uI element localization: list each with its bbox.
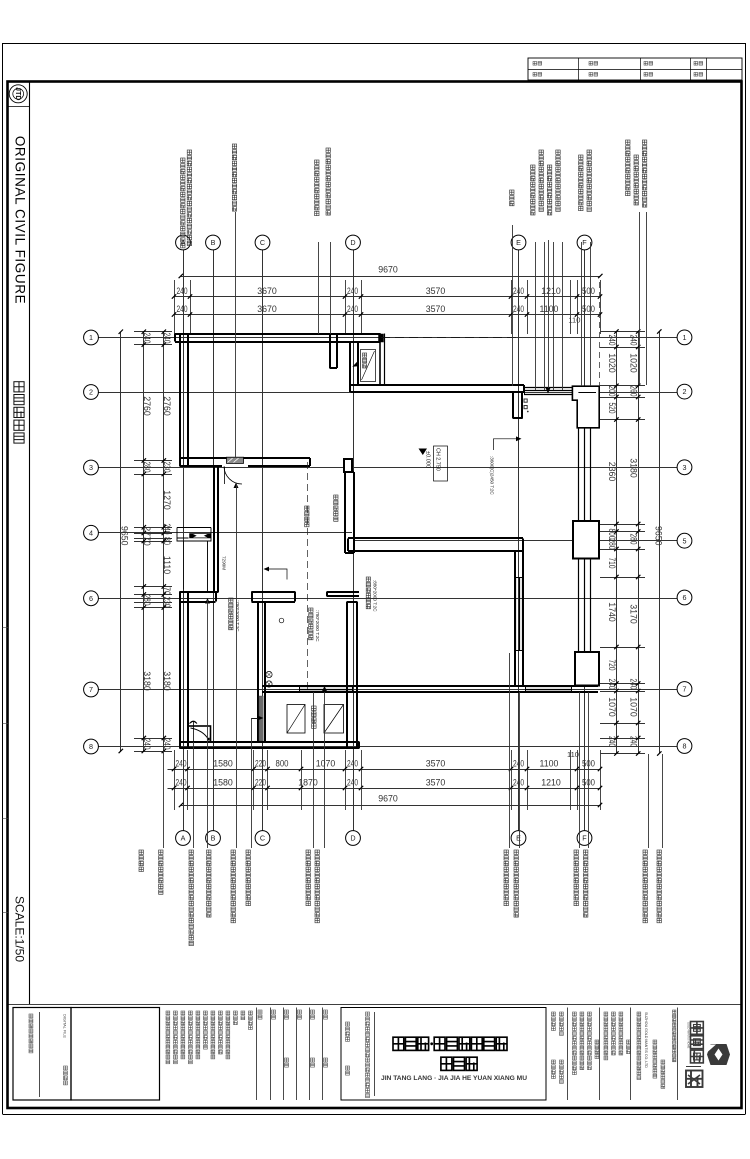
svg-text:JIN TANG LANG · JIA JIA HE YUA: JIN TANG LANG · JIA JIA HE YUAN XIANG MU — [381, 1075, 527, 1082]
svg-text:3570: 3570 — [426, 759, 446, 769]
equipment platform left — [287, 705, 305, 734]
axis4 west window black band — [190, 534, 212, 539]
wall south band with windows — [262, 685, 598, 687]
svg-text:240: 240 — [347, 304, 358, 314]
equipment platform label — [312, 706, 317, 711]
svg-text:9650: 9650 — [654, 526, 664, 546]
info column small — [673, 1010, 676, 1013]
left outer dim line — [143, 332, 145, 753]
svg-text:3570: 3570 — [426, 778, 446, 788]
annotation b6 — [246, 850, 250, 854]
wall chunk east mid — [573, 521, 599, 559]
wall stub east of bedroom1 — [329, 334, 331, 369]
annotation F1 — [579, 155, 583, 159]
gold mantis logo — [691, 1022, 704, 1035]
annotation b14 — [657, 850, 661, 854]
wall south of living room — [348, 537, 523, 539]
top dimension row 9670 — [181, 276, 601, 278]
dashed building edge line F — [599, 282, 601, 386]
svg-text:3170: 3170 — [629, 604, 639, 624]
balcony laundry label box — [361, 350, 376, 382]
grid circle E bottom — [511, 831, 526, 846]
svg-text:280: 280 — [629, 534, 639, 545]
grid circle D bottom — [346, 831, 361, 846]
annotation b11 — [574, 850, 578, 854]
signature label 2 — [285, 1058, 289, 1062]
signature table lines — [256, 1008, 258, 1101]
svg-text:3670: 3670 — [257, 304, 277, 314]
note column — [211, 1011, 215, 1015]
grid circle 1 right — [677, 330, 692, 345]
bottom dim extension ticks — [174, 750, 176, 810]
grid circle D top — [346, 235, 361, 250]
info column — [552, 1060, 556, 1064]
wall chunk east bottom corner — [575, 652, 599, 686]
svg-text:6: 6 — [89, 594, 93, 603]
svg-text:240: 240 — [347, 286, 358, 296]
entry direction arrow — [494, 439, 517, 450]
info column — [619, 1012, 623, 1016]
outer thin border bottom — [3, 1114, 746, 1116]
svg-text:1: 1 — [683, 333, 687, 342]
note column — [166, 1011, 170, 1015]
svg-text::780*2000 T:2C: :780*2000 T:2C — [235, 600, 240, 632]
svg-text:C: C — [260, 238, 265, 247]
svg-text:1100: 1100 — [540, 304, 559, 314]
svg-text:1: 1 — [89, 333, 93, 342]
wall vertical between bottom rooms — [514, 551, 516, 686]
svg-text:240: 240 — [347, 759, 358, 769]
grid circle 3 left — [84, 460, 99, 475]
wall vertical center (living west) — [344, 472, 346, 553]
svg-text:500: 500 — [582, 286, 595, 296]
svg-text:8: 8 — [683, 742, 687, 751]
wall balcony east lines — [379, 334, 381, 386]
svg-text:3180: 3180 — [629, 458, 639, 478]
grid circle E top — [511, 235, 526, 250]
svg-text:1580: 1580 — [213, 759, 233, 769]
right outer dim line — [638, 332, 640, 754]
svg-text:240: 240 — [607, 335, 617, 346]
signature label — [285, 1010, 289, 1014]
door swing arc at bedroom1 south door — [224, 467, 242, 485]
bottom leader arrowheads — [205, 598, 210, 604]
annotation F2 — [587, 150, 591, 154]
annotation B — [232, 144, 236, 148]
window east wall upper — [578, 428, 580, 521]
svg-text:240: 240 — [629, 736, 639, 747]
annotation E4 — [556, 150, 560, 154]
annotation C1 — [315, 160, 319, 164]
annotation E1 — [531, 165, 535, 169]
svg-text::880*2000 T:2C: :880*2000 T:2C — [373, 580, 378, 612]
svg-text:D: D — [350, 238, 355, 247]
top dim extension ticks — [174, 280, 176, 334]
dashed boundary line east of top wall — [381, 337, 519, 339]
grid circle 8 right — [677, 739, 692, 754]
left dim 9650 line — [120, 332, 122, 753]
signature label 2 — [324, 1058, 328, 1062]
note column — [226, 1011, 230, 1015]
wall west of bedroom1 (outer west wall) — [179, 334, 181, 467]
svg-text:B: B — [211, 238, 216, 247]
svg-text:1020: 1020 — [607, 353, 617, 373]
wall vertical bath east — [346, 602, 348, 749]
note column — [174, 1011, 178, 1015]
info column — [612, 1012, 616, 1016]
window leader down arrow — [548, 240, 550, 389]
info column — [661, 1060, 665, 1064]
project title box — [341, 1008, 546, 1101]
gas note — [305, 506, 309, 510]
wall top of bedroom1 (outer north wall) — [175, 333, 381, 335]
annotation G2 — [634, 155, 638, 159]
annotation b8 — [315, 850, 319, 854]
grid circle 6 right — [677, 590, 692, 605]
svg-text:E: E — [516, 834, 521, 843]
window east wall lower — [578, 559, 580, 653]
svg-text:240: 240 — [176, 778, 187, 788]
svg-text:3: 3 — [89, 463, 93, 472]
svg-text:240: 240 — [162, 739, 172, 750]
title line 1 — [393, 1037, 404, 1050]
grid axis 4 horizontal line — [99, 532, 353, 534]
grid circle 7 right — [677, 682, 692, 697]
annotation b1 — [139, 850, 143, 854]
door note D1 col1 — [229, 598, 233, 602]
title line 2 — [441, 1057, 452, 1070]
grid circle F top — [577, 235, 592, 250]
grid circle 1 left — [84, 330, 99, 345]
info column — [653, 1040, 657, 1044]
svg-text:9670: 9670 — [378, 265, 398, 275]
corner wall column northeast (L-shape) — [572, 386, 599, 428]
svg-text::3600(C)2450 T:2C: :3600(C)2450 T:2C — [490, 456, 495, 495]
title block top line — [8, 1004, 743, 1006]
note column — [234, 1011, 238, 1015]
note column — [204, 1011, 208, 1015]
grid axis D vertical line — [353, 250, 355, 831]
svg-text:4: 4 — [89, 528, 93, 537]
info column — [560, 1060, 564, 1064]
svg-text:E: E — [516, 238, 521, 247]
outer thin border top — [3, 43, 746, 45]
info column — [552, 1012, 556, 1016]
grid axis A vertical line — [183, 250, 185, 831]
annotation C2 — [326, 148, 330, 152]
info column — [560, 1012, 564, 1016]
right inner dim line — [616, 332, 618, 754]
right info columns — [567, 1008, 569, 1101]
sidebar logo circle — [9, 85, 27, 103]
sidebar fold ticks — [3, 627, 9, 629]
grid circle 7 left — [84, 682, 99, 697]
svg-text:240: 240 — [629, 335, 639, 346]
svg-text:3180: 3180 — [142, 671, 152, 691]
annotation b7 — [306, 850, 310, 854]
svg-text:6: 6 — [683, 593, 687, 602]
grid circle C top — [255, 235, 270, 250]
svg-text:1210: 1210 — [541, 778, 561, 788]
svg-text:240: 240 — [513, 759, 524, 769]
grid circle A top — [176, 235, 191, 250]
window bottom middle — [299, 686, 352, 688]
signature label — [272, 1010, 276, 1014]
svg-text:9670: 9670 — [378, 794, 398, 804]
svg-text:280: 280 — [142, 595, 152, 606]
window sill up arrow — [322, 686, 328, 692]
project name label — [346, 1022, 350, 1026]
svg-text:1070: 1070 — [316, 759, 336, 769]
entry door box bottom-left — [188, 726, 211, 742]
svg-text:2: 2 — [89, 388, 93, 397]
sidebar chinese title — [14, 382, 24, 392]
svg-text:500: 500 — [582, 304, 595, 314]
bottom leader lines — [163, 751, 165, 848]
dashed centerline bathroom — [307, 462, 309, 692]
grid axis 1 horizontal line — [99, 337, 678, 339]
grid circle B bottom — [206, 831, 221, 846]
svg-text:B: B — [211, 834, 216, 843]
info column — [637, 1012, 641, 1016]
signature label — [311, 1010, 315, 1014]
grid axis 6 horizontal line — [99, 598, 678, 600]
svg-text:SCALE:1/50: SCALE:1/50 — [13, 896, 27, 962]
svg-text:240: 240 — [177, 286, 188, 296]
svg-text:710: 710 — [607, 558, 617, 569]
annotation b12 — [584, 850, 588, 854]
grid axis C vertical line — [262, 250, 264, 831]
grid circle 2 right — [677, 384, 692, 399]
info column — [580, 1012, 584, 1016]
svg-text:7: 7 — [683, 685, 687, 694]
annotation E2 — [539, 150, 543, 154]
grid axis F vertical line — [584, 250, 586, 831]
svg-text:720: 720 — [607, 660, 617, 671]
grid circle 2 left — [84, 385, 99, 400]
leader elbow arrow into hatched wall — [251, 718, 258, 720]
svg-text:2760: 2760 — [162, 396, 172, 416]
grid circle 8 left — [84, 739, 99, 754]
wall partition balcony west — [349, 342, 351, 386]
drawing name label — [346, 1066, 350, 1070]
shaft wall lines below axis4 window — [183, 541, 185, 590]
info column — [573, 1012, 577, 1016]
annotation A1 — [181, 158, 185, 162]
grid circle A bottom — [176, 831, 191, 846]
annotation b5 — [231, 850, 235, 854]
svg-text:9650: 9650 — [119, 526, 129, 546]
table labels — [533, 62, 537, 66]
svg-text:8: 8 — [89, 742, 93, 751]
wall segments row y=591-601 with door openings — [180, 591, 216, 593]
leader arrow left — [269, 569, 287, 580]
annotation D — [510, 190, 514, 194]
svg-text:A: A — [181, 834, 186, 843]
svg-text:240: 240 — [142, 333, 152, 344]
annotation A2 — [187, 150, 191, 154]
svg-text:2760: 2760 — [142, 396, 152, 416]
note column — [249, 1011, 253, 1015]
grid axis B vertical line — [213, 250, 215, 831]
svg-text:D: D — [350, 834, 355, 843]
floor drain symbols — [266, 671, 272, 677]
right dim extension ticks — [600, 331, 645, 333]
wall outer west lower — [179, 592, 181, 749]
sidebar logo cell line — [8, 106, 30, 108]
grid circle C bottom — [255, 831, 270, 846]
wall stub south of entry wall — [512, 392, 514, 419]
logo divider bar — [686, 1066, 701, 1068]
svg-text:2770: 2770 — [142, 526, 152, 546]
svg-text:1070: 1070 — [607, 697, 617, 717]
door note D2 col1 — [309, 608, 313, 612]
right dim 9650 line — [659, 332, 661, 754]
empty box — [71, 1008, 160, 1101]
svg-text:GOLD MANTIS HOME: GOLD MANTIS HOME — [687, 1022, 691, 1049]
white column top of mid vertical wall — [344, 459, 352, 472]
annotation b9 — [504, 850, 508, 854]
grid axis 7 horizontal line — [99, 689, 678, 691]
wall vertical kitchen divider — [257, 602, 259, 742]
grid circle B top — [206, 235, 221, 250]
svg-text:240: 240 — [513, 286, 524, 296]
note column — [219, 1011, 223, 1015]
annotation b4 — [207, 850, 211, 854]
window bottom right — [525, 686, 571, 688]
left inner dim line — [163, 332, 165, 753]
svg-text:240: 240 — [177, 304, 188, 314]
svg-text:240: 240 — [347, 778, 358, 788]
svg-text:240: 240 — [513, 778, 524, 788]
grid circle F bottom — [577, 831, 592, 846]
svg-text:7: 7 — [89, 685, 93, 694]
svg-text:240: 240 — [176, 759, 187, 769]
annotation b13 — [643, 850, 647, 854]
wall west boundary middle notch — [213, 466, 215, 592]
bottom dimension row B line — [168, 788, 601, 790]
svg-text:CH 2.750: CH 2.750 — [435, 448, 441, 471]
svg-text:280: 280 — [607, 539, 617, 550]
grid axis 8 horizontal line — [99, 746, 678, 748]
annotation b2 — [159, 850, 163, 854]
grid circle 3 right — [677, 460, 692, 475]
hatched wall segment — [259, 696, 263, 741]
svg-text:800: 800 — [276, 759, 289, 769]
door note D3 col1 — [366, 577, 370, 581]
svg-text:220: 220 — [255, 778, 266, 788]
svg-text:240: 240 — [513, 304, 524, 314]
print file box — [13, 1008, 71, 1101]
company stamp column — [366, 1012, 370, 1016]
bottom dimension row A line — [168, 769, 601, 771]
note column — [181, 1011, 185, 1015]
wall outer south — [180, 741, 360, 743]
grid axis 2 horizontal line — [99, 392, 678, 394]
svg-text:5: 5 — [683, 536, 687, 545]
note column — [189, 1011, 193, 1015]
signature label 2 — [311, 1058, 315, 1062]
elevation text box CH 2.750 — [434, 446, 448, 481]
svg-text:±0.000: ±0.000 — [425, 451, 431, 468]
svg-text::780*2000 T:2C: :780*2000 T:2C — [315, 610, 320, 642]
outer thin border left — [2, 43, 4, 1114]
sidebar divider line — [29, 82, 31, 1005]
note column — [196, 1011, 200, 1015]
up arrow at entry door — [193, 722, 195, 743]
svg-text:1580: 1580 — [213, 778, 233, 788]
reserved hole note — [334, 495, 338, 499]
top-right title table — [528, 58, 742, 80]
annotation G3 — [642, 140, 646, 144]
svg-text:280: 280 — [142, 462, 152, 473]
svg-text:1270: 1270 — [162, 490, 172, 510]
signature label — [324, 1010, 328, 1014]
info column — [588, 1012, 592, 1016]
svg-text:3180: 3180 — [162, 671, 172, 691]
top dimension row 3 line — [174, 314, 600, 316]
svg-text:3670: 3670 — [257, 286, 277, 296]
grid axis 3 horizontal line — [99, 467, 678, 469]
svg-text:3: 3 — [683, 463, 687, 472]
annotation b10 — [514, 850, 518, 854]
svg-text:240: 240 — [162, 333, 172, 344]
signature label — [298, 1010, 302, 1014]
svg-text:JTD: JTD — [14, 87, 21, 100]
info column — [604, 1012, 608, 1016]
svg-text:1070: 1070 — [629, 697, 639, 717]
annotation E3 — [547, 165, 551, 169]
print file label — [29, 1014, 33, 1018]
svg-text:240: 240 — [607, 736, 617, 747]
svg-text:2360: 2360 — [607, 462, 617, 482]
svg-text:240: 240 — [142, 739, 152, 750]
bottom dimension row 9670 — [181, 805, 600, 807]
svg-text:2: 2 — [683, 387, 687, 396]
svg-text:1100: 1100 — [540, 759, 559, 769]
top leader lines — [235, 212, 237, 457]
grid axis E vertical line — [518, 250, 520, 831]
equipment platform right — [324, 705, 344, 734]
annotation b3 — [189, 850, 193, 854]
svg-text:F: F — [582, 834, 587, 843]
svg-text:SUZHOU GOLD MANTIS CO.,LTD: SUZHOU GOLD MANTIS CO.,LTD — [644, 1012, 648, 1068]
svg-text:F: F — [582, 238, 587, 247]
note column — [241, 1011, 245, 1015]
axis4 west window outline — [177, 528, 211, 542]
svg-text:DIGITAL FILE: DIGITAL FILE — [63, 1014, 68, 1038]
svg-text:3570: 3570 — [426, 286, 446, 296]
info column — [595, 1040, 599, 1044]
svg-text:ORIGINAL CIVIL FIGURE: ORIGINAL CIVIL FIGURE — [13, 136, 28, 304]
top dimension row 2 line — [174, 296, 600, 298]
window in bottom rooms divider — [515, 577, 517, 650]
left dim extension ticks — [134, 331, 172, 333]
wall bedroom1 south with door opening — [180, 457, 311, 459]
entry socket symbols — [524, 399, 527, 402]
wall north of hallway/entry — [351, 384, 525, 386]
logo hexagon icon — [707, 1044, 730, 1065]
annotation G1 — [626, 140, 630, 144]
svg-text:230: 230 — [162, 462, 172, 473]
outer thin border right — [745, 43, 747, 1114]
sliding door symbol in bedroom1 south wall — [227, 457, 244, 463]
balcony corner block — [379, 334, 384, 342]
svg-text:C: C — [260, 834, 265, 843]
svg-text:1110: 1110 — [162, 556, 172, 574]
svg-text:230: 230 — [162, 597, 172, 608]
window in entry north wall — [524, 387, 572, 389]
